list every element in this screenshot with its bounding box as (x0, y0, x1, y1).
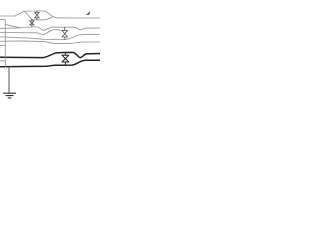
ground symbol (4, 93, 16, 98)
wire: channel 2 inner conductor (B) into bowtie (0, 30, 62, 35)
wire: channel 3 upper conductor (D, thick) (0, 52, 100, 57)
wire: channel 2 lower conductor (C) (0, 34, 100, 39)
wire: channel 2 upper conductor (A) (0, 27, 100, 31)
wire: shield lead turning into ground bus (0, 20, 5, 67)
wire: bus tap sloping into channel 2 upper conductor (5, 24, 20, 27)
arrowhead annotation near channel-1 output (86, 12, 89, 15)
suppressor (bowtie) D2 between channel 1 and channel 2 (30, 19, 34, 27)
wire: channel 1 output to right edge (53, 17, 100, 18)
wire: channel 1 lead from left edge (0, 11, 24, 16)
node: protector envelope (eye) of channel 1 (24, 11, 53, 20)
wire: channel 3 lower conductor (E, thick) (0, 60, 100, 67)
wire: pass-through line (F) under channel 2 (0, 41, 100, 44)
wire: ground drop from channel-3 lower conductor (8, 67, 10, 93)
suppressor (bowtie) D3 inside channel-2 eye (62, 27, 68, 39)
suppressor (bowtie) D4 inside channel-3 eye (62, 53, 69, 66)
wire: shield stub of channel 2 to bus (0, 44, 5, 46)
wire: shield stub of channel 3 to bus (0, 60, 5, 62)
suppressor (bowtie) D1 inside channel-1 eye (35, 11, 40, 20)
